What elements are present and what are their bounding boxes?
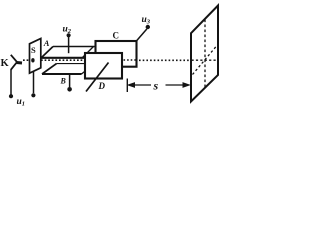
terminal dot below B: [67, 87, 72, 92]
plate C rear rectangle: [96, 41, 137, 67]
screen dashed diagonal: [193, 46, 217, 75]
cathode K: [11, 55, 22, 70]
beam axis dotted segment left: [23, 59, 85, 61]
dimension arrow left half: [128, 83, 151, 87]
svg-text:C: C: [113, 31, 120, 41]
wire S down to u1 terminal: [33, 71, 35, 93]
plate A: [41, 47, 95, 59]
svg-text:A: A: [43, 38, 50, 48]
svg-text:D: D: [98, 81, 106, 91]
terminal dot left (u1): [9, 94, 13, 98]
wire u2 to plate A: [68, 37, 70, 53]
svg-text:s: s: [153, 79, 159, 93]
beam axis dotted segment right: [139, 59, 190, 61]
terminal dot right (u1): [31, 93, 35, 97]
diagonal slash through D: [86, 63, 109, 92]
anode plate S: [30, 39, 41, 74]
terminal dot u2: [67, 33, 71, 37]
svg-text:K: K: [1, 58, 10, 69]
plate B: [42, 64, 86, 74]
dimension arrow right half: [166, 83, 190, 87]
aperture dot in S: [31, 58, 34, 62]
wire cathode down to u1 terminal: [10, 70, 12, 95]
wire u3 to plate C: [137, 29, 147, 41]
dimension tick left of s arrow: [126, 79, 128, 93]
beam axis dotted segment between D and C edges: [124, 59, 137, 61]
screen horizontal dashed centerline: [192, 59, 218, 61]
screen: [191, 6, 218, 102]
svg-text:S: S: [31, 45, 36, 55]
svg-text:B: B: [60, 77, 67, 86]
terminal dot u3: [146, 25, 150, 29]
plate D front rectangle: [85, 53, 122, 79]
screen vertical dashed centerline: [204, 20, 206, 89]
wire plate B down to terminal: [69, 74, 71, 87]
